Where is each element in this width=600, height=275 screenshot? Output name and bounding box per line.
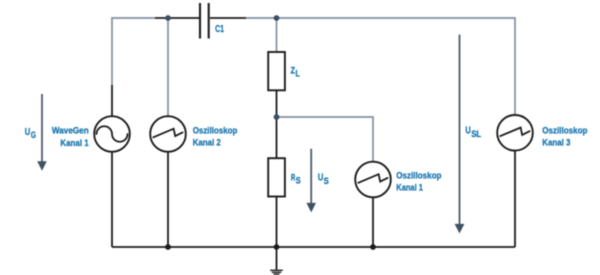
svg-text:Kanal 1: Kanal 1 xyxy=(396,182,423,193)
svg-text:Oszilloskop: Oszilloskop xyxy=(193,125,238,136)
svg-text:L: L xyxy=(296,69,301,79)
svg-text:Z: Z xyxy=(291,65,296,76)
svg-text:Kanal 2: Kanal 2 xyxy=(193,137,221,148)
svg-text:U: U xyxy=(25,127,30,138)
svg-text:Kanal 1: Kanal 1 xyxy=(60,138,89,149)
svg-text:Oszilloskop: Oszilloskop xyxy=(396,170,441,181)
svg-text:S: S xyxy=(296,176,301,186)
svg-text:Kanal 3: Kanal 3 xyxy=(542,137,570,148)
svg-text:U: U xyxy=(318,173,323,184)
svg-text:G: G xyxy=(31,130,36,140)
svg-text:U: U xyxy=(465,126,470,137)
svg-text:C1: C1 xyxy=(215,24,224,35)
svg-text:SL: SL xyxy=(471,129,481,139)
svg-text:S: S xyxy=(324,176,329,186)
svg-text:Oszilloskop: Oszilloskop xyxy=(542,125,587,136)
svg-text:WaveGen: WaveGen xyxy=(52,126,89,137)
